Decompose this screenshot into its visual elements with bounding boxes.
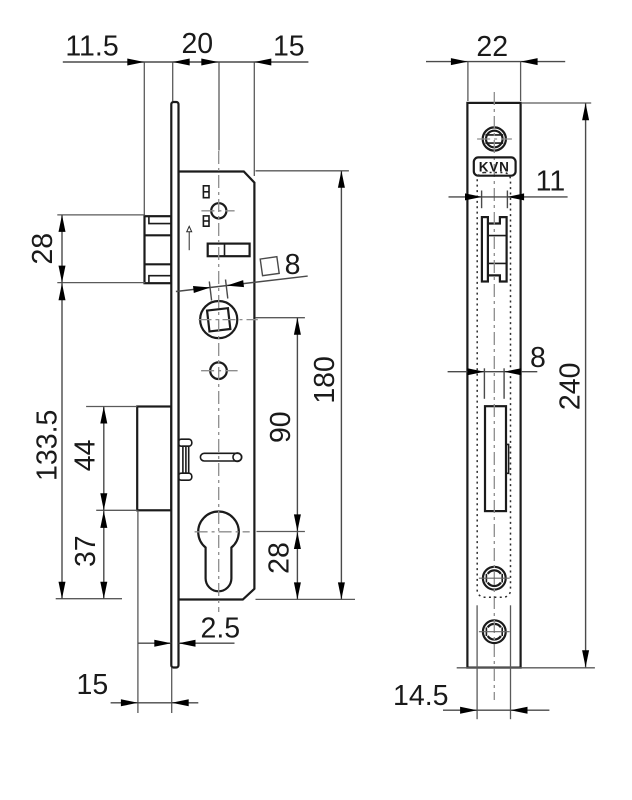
svg-text:15: 15 (77, 669, 109, 701)
svg-text:11: 11 (536, 166, 566, 198)
svg-text:15: 15 (273, 31, 305, 63)
svg-text:28: 28 (264, 542, 296, 574)
svg-text:14.5: 14.5 (393, 680, 448, 712)
svg-text:20: 20 (181, 28, 213, 60)
svg-text:8: 8 (285, 249, 301, 281)
svg-text:180: 180 (309, 356, 341, 404)
svg-text:90: 90 (265, 411, 297, 443)
svg-text:28: 28 (27, 233, 59, 265)
svg-text:240: 240 (555, 363, 587, 411)
svg-text:133.5: 133.5 (32, 410, 64, 481)
svg-text:8: 8 (530, 342, 546, 374)
svg-text:22: 22 (476, 31, 508, 63)
svg-text:2.5: 2.5 (200, 613, 240, 645)
svg-text:37: 37 (70, 535, 102, 567)
svg-text:11.5: 11.5 (65, 31, 118, 63)
svg-text:44: 44 (70, 439, 102, 471)
